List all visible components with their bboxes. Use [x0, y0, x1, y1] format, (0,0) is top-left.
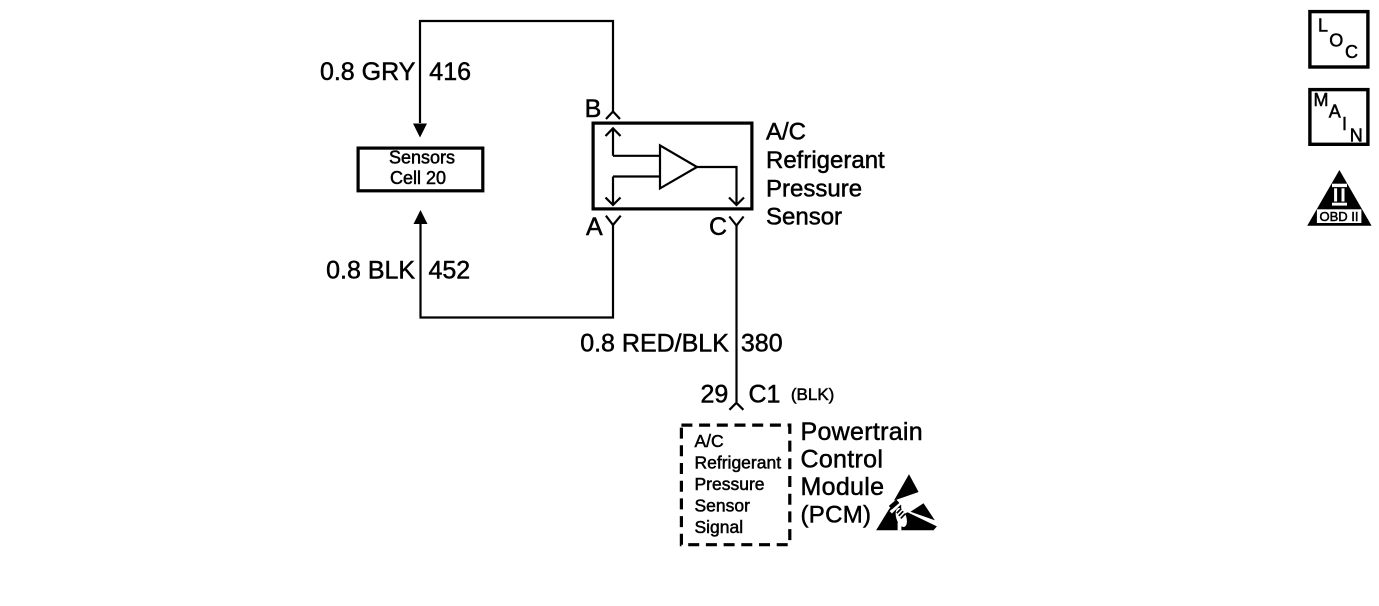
svg-text:O: O	[1329, 31, 1343, 51]
svg-text:416: 416	[429, 58, 471, 86]
svg-text:OBD II: OBD II	[1319, 209, 1358, 224]
A/C refrigerant pressure sensor box	[593, 123, 752, 209]
svg-text:B: B	[585, 95, 602, 123]
svg-text:Refrigerant: Refrigerant	[766, 147, 885, 174]
svg-text:A/C: A/C	[766, 119, 806, 146]
svg-text:A: A	[1329, 102, 1341, 122]
arrowhead up toward Sensors cell	[414, 210, 428, 224]
svg-text:C: C	[709, 213, 727, 241]
connector chevron pin C	[729, 217, 743, 226]
svg-text:380: 380	[741, 329, 783, 357]
svg-text:Refrigerant: Refrigerant	[695, 452, 782, 472]
svg-text:Control: Control	[801, 445, 884, 473]
svg-text:C1: C1	[749, 380, 781, 408]
svg-text:Pressure: Pressure	[695, 474, 765, 494]
MAIN legend box	[1310, 90, 1368, 146]
Sensors Cell 20 box	[358, 148, 483, 191]
amplifier triangle	[660, 145, 697, 188]
svg-text:A/C: A/C	[695, 431, 724, 451]
svg-text:Powertrain: Powertrain	[801, 418, 924, 446]
sensor inner wire from B with up arrow	[606, 128, 661, 156]
svg-text:N: N	[1350, 125, 1363, 145]
svg-text:0.8 RED/BLK: 0.8 RED/BLK	[580, 329, 729, 357]
svg-text:L: L	[1318, 16, 1328, 36]
svg-text:Signal: Signal	[695, 517, 744, 537]
svg-text:C: C	[1345, 42, 1358, 62]
svg-text:452: 452	[429, 257, 471, 285]
svg-text:M: M	[1314, 90, 1329, 110]
svg-text:I: I	[1342, 114, 1347, 134]
svg-text:Cell 20: Cell 20	[390, 168, 446, 188]
svg-text:Sensor: Sensor	[766, 204, 842, 231]
wire 416 top run	[420, 21, 613, 123]
connector chevron pin B	[606, 112, 620, 120]
wire 380 from pin C down	[735, 226, 737, 403]
ESD symbol upper triangle	[894, 474, 919, 500]
connector chevron into PCM	[729, 403, 743, 410]
sensor inner wire to A with down arrow	[606, 177, 661, 206]
connector chevron pin A	[606, 216, 621, 225]
PCM dashed box	[681, 425, 789, 545]
svg-text:Sensors: Sensors	[389, 147, 455, 167]
svg-text:Pressure: Pressure	[766, 175, 862, 202]
LOC legend box	[1310, 12, 1368, 67]
svg-text:0.8 BLK: 0.8 BLK	[326, 257, 415, 285]
arrowhead into Sensors cell (down)	[413, 124, 427, 138]
ESD symbol lower triangle with hand and slash	[876, 501, 937, 530]
svg-text:(PCM): (PCM)	[801, 501, 872, 528]
svg-text:Module: Module	[801, 473, 885, 501]
svg-text:29: 29	[700, 380, 728, 408]
svg-text:A: A	[586, 213, 603, 241]
svg-text:Sensor: Sensor	[695, 495, 751, 515]
sensor inner output wire to C with down arrow	[697, 167, 744, 205]
OBD II triangle symbol	[1307, 170, 1371, 226]
svg-text:(BLK): (BLK)	[791, 385, 834, 404]
wire 452 lower-left run	[421, 224, 614, 318]
svg-text:0.8 GRY: 0.8 GRY	[320, 58, 416, 86]
